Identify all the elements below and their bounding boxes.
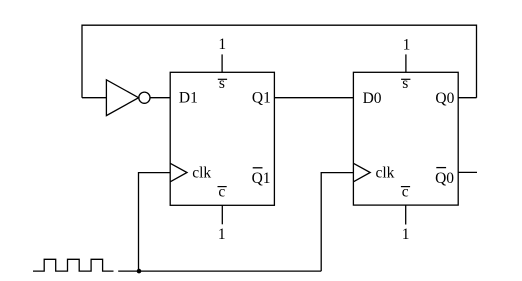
pin s stub U3 <box>405 54 407 72</box>
svg-text:1: 1 <box>403 36 411 53</box>
flip-flop U3 (D0) box <box>353 72 458 205</box>
svg-text:Q1: Q1 <box>252 90 271 107</box>
flip-flop U2 (D1) box <box>170 72 274 205</box>
wire: clock bus bottom <box>118 270 321 272</box>
svg-text:1: 1 <box>402 226 410 243</box>
pin c stub U2 <box>221 205 223 224</box>
svg-text:1: 1 <box>218 36 226 53</box>
svg-text:D0: D0 <box>363 90 382 107</box>
wire: inverter output to D1 <box>150 97 170 99</box>
wire: Q1 to D0 <box>274 97 353 99</box>
wire: clk branch to U3 <box>321 173 353 272</box>
svg-text:clk: clk <box>376 164 395 181</box>
pin s stub U2 <box>221 54 223 72</box>
wire: feedback from Q0 output up and across to inverter input <box>82 25 477 98</box>
wire: inverter input segment <box>82 97 106 99</box>
svg-text:Q0: Q0 <box>435 170 454 187</box>
wire: clk branch to U2 <box>139 173 171 272</box>
pin c stub U3 <box>405 205 407 224</box>
wire: Q0bar output stub <box>458 171 477 173</box>
junction dot <box>137 269 142 274</box>
clk edge triangle U3 <box>353 163 370 182</box>
svg-text:1: 1 <box>218 226 226 243</box>
svg-text:s: s <box>219 75 225 92</box>
svg-text:s: s <box>402 75 408 92</box>
clock waveform symbol <box>33 259 114 271</box>
inverter U1 <box>106 80 138 116</box>
svg-text:Q0: Q0 <box>435 90 454 107</box>
svg-text:Q1: Q1 <box>252 170 271 187</box>
wire: Q0 output to feedback corner <box>458 97 476 99</box>
clk edge triangle U2 <box>170 163 187 182</box>
svg-text:clk: clk <box>192 164 211 181</box>
svg-text:D1: D1 <box>179 89 198 106</box>
